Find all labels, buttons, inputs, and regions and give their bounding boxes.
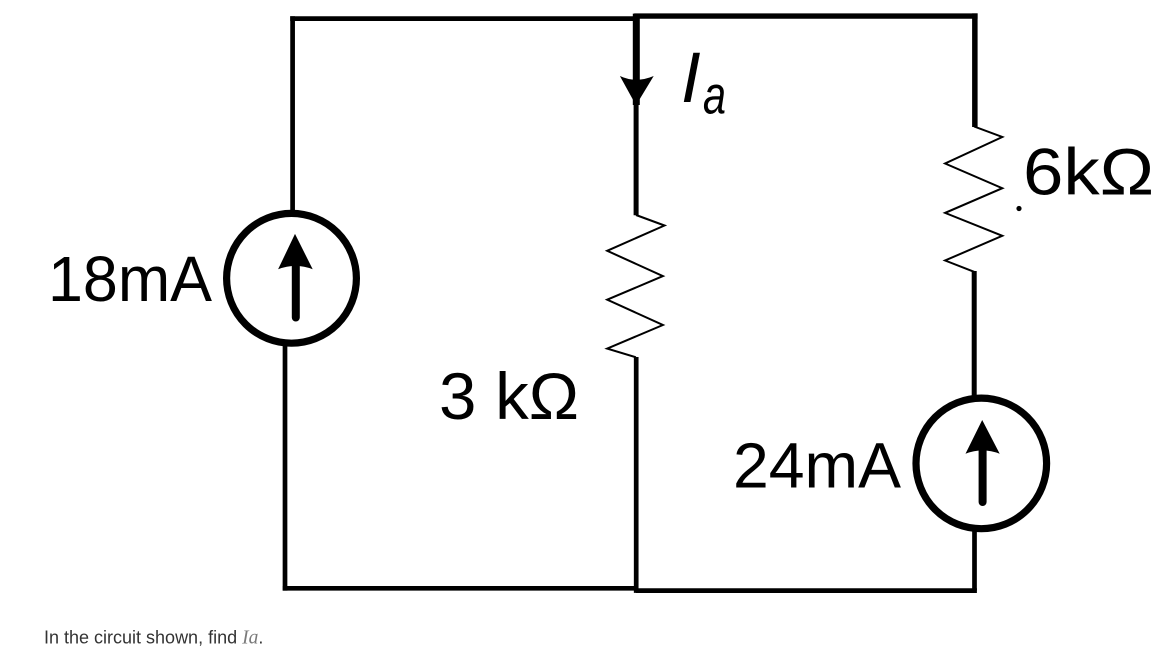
arrow inside 24mA source (up) xyxy=(979,449,987,502)
wire right vertical (middle, resistor to 24mA source) xyxy=(972,271,977,396)
wire middle vertical (top, with Ia arrow overlay) xyxy=(633,14,640,105)
wire bottom-left horizontal xyxy=(283,586,639,591)
arrowhead Ia (pointing down) xyxy=(620,76,654,105)
resistor R middle 3k zigzag xyxy=(607,215,664,357)
svg-text:6kΩ: 6kΩ xyxy=(1023,135,1154,209)
wire right vertical (bottom, below 24mA source) xyxy=(972,528,977,591)
wire bottom-right horizontal xyxy=(636,588,977,593)
stray dot before 6k label xyxy=(1016,206,1021,211)
wire middle vertical (below arrow, to resistor) xyxy=(634,100,639,215)
current source 24mA circle xyxy=(916,398,1047,529)
arrow inside 18mA source (up) xyxy=(292,264,300,318)
wire left vertical (top, above 18mA source) xyxy=(290,16,295,211)
wire middle vertical (bottom, resistor to bottom rail) xyxy=(634,357,639,593)
svg-text:3 kΩ: 3 kΩ xyxy=(439,359,579,433)
wire top-left horizontal xyxy=(290,16,639,21)
svg-text:In the circuit shown, find Ia.: In the circuit shown, find Ia. xyxy=(44,628,263,649)
wire right vertical (top, above 6k resistor) xyxy=(972,13,978,127)
resistor R right 6k zigzag xyxy=(945,127,1002,272)
current source 18mA circle xyxy=(227,213,357,343)
svg-text:a: a xyxy=(703,66,726,126)
wire left vertical (bottom, below 18mA source) xyxy=(283,346,288,591)
svg-text:18mA: 18mA xyxy=(48,243,212,315)
wire top-right horizontal xyxy=(634,13,977,18)
svg-text:24mA: 24mA xyxy=(733,430,901,502)
svg-text:I: I xyxy=(681,39,701,118)
